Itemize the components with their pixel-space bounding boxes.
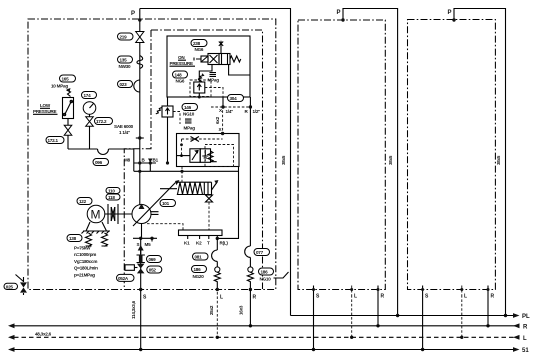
svg-text:025: 025 (6, 284, 14, 289)
motor data text block (74, 246, 98, 278)
svg-text:38x5: 38x5 (388, 155, 393, 165)
svg-text:165: 165 (62, 76, 70, 81)
hose 135 NW30: flexible hose on P riser (118, 56, 143, 70)
svg-text:172.1: 172.1 (48, 138, 59, 143)
svg-text:Q=180L/min: Q=180L/min (74, 266, 98, 271)
enclosure: motor circuit 2 boundary (408, 20, 496, 290)
loop 081 on L drain (193, 250, 218, 261)
svg-text:10 MPag: 10 MPag (51, 84, 68, 89)
pump 101: variable axial piston pump (132, 183, 176, 227)
svg-text:077: 077 (256, 250, 264, 255)
svg-text:138: 138 (69, 236, 77, 241)
svg-text:219: 219 (120, 34, 128, 39)
bus R (8, 323, 528, 330)
svg-text:122: 122 (79, 199, 87, 204)
svg-text:P: P (131, 11, 135, 17)
coupling + hose 186 NG20 on L drain (192, 261, 221, 289)
orifice under actuator (206, 195, 213, 230)
flow arrow up on suction (138, 245, 144, 251)
svg-text:T: T (207, 241, 210, 246)
svg-text:R: R (253, 295, 257, 301)
svg-text:p=21MPag: p=21MPag (74, 272, 95, 277)
wire: L drop to L bus (216, 292, 218, 337)
port plate (179, 230, 229, 246)
node P motor1 (341, 18, 344, 21)
svg-text:S: S (316, 294, 320, 300)
svg-text:NG10: NG10 (183, 112, 195, 117)
node S at boundary (139, 288, 142, 291)
regulator block outline (177, 134, 240, 167)
motor2 ports S L R (421, 286, 494, 300)
node: PL feed junctions (396, 314, 399, 317)
loop 023: expansion loop on P riser (118, 80, 140, 92)
svg-text:ON: ON (178, 55, 185, 60)
node L at boundary (216, 288, 219, 291)
wire: X and R ports under manifold (211, 97, 260, 124)
svg-text:1/4": 1/4" (226, 109, 234, 114)
svg-text:M5: M5 (145, 242, 152, 247)
svg-text:118: 118 (108, 195, 115, 200)
pressure compensator valve in regulator (177, 145, 234, 167)
svg-text:51: 51 (522, 348, 529, 354)
svg-text:069: 069 (149, 257, 157, 262)
svg-text:PL: PL (522, 314, 530, 320)
svg-text:38x5: 38x5 (496, 155, 501, 165)
svg-text:135: 135 (120, 57, 128, 62)
svg-text:R: R (381, 294, 385, 300)
motor1 ports S L R (312, 286, 385, 300)
svg-text:X: X (219, 127, 223, 132)
motor M 122 (77, 198, 105, 223)
bus 51 (8, 347, 529, 354)
wire: suction drop (140, 238, 142, 289)
svg-text:L: L (523, 336, 527, 342)
plugged port above valve (219, 41, 223, 54)
svg-text:052: 052 (149, 267, 157, 272)
svg-text:1 1/4": 1 1/4" (119, 130, 130, 135)
valve 052: suction shutoff (closed symbol) (117, 264, 162, 282)
vent lever at boundary right edge (274, 272, 289, 278)
svg-text:146: 146 (184, 105, 192, 110)
wire: drain from regulator right to R(L) (217, 167, 238, 239)
orifice X in regulator (180, 137, 223, 158)
svg-text:38x5: 38x5 (281, 155, 286, 165)
wire: charge/gauge line y=149 (68, 149, 134, 171)
wire: dashed drops from regulator to port plate (147, 224, 183, 230)
svg-text:101: 101 (162, 201, 170, 206)
svg-text:NG6: NG6 (195, 47, 204, 52)
valve 172.1: gauge shutoff under pressure switch (46, 119, 72, 150)
svg-text:052A: 052A (118, 276, 129, 281)
svg-text:304: 304 (230, 96, 238, 101)
actuator: swashplate positioner with spring (160, 180, 219, 195)
svg-text:MPag: MPag (184, 126, 196, 131)
svg-text:186: 186 (194, 267, 202, 272)
svg-text:148: 148 (175, 72, 183, 77)
svg-text:L: L (464, 294, 467, 300)
svg-text:NG6: NG6 (176, 79, 185, 84)
bus L (dashed) (8, 332, 527, 343)
svg-text:R: R (491, 294, 495, 300)
svg-text:B1: B1 (153, 158, 159, 163)
svg-text:PRESSURE: PRESSURE (170, 61, 193, 66)
coupling 110/118 (105, 188, 132, 225)
wire: pilot dashed from node to actuator (181, 167, 183, 183)
motor mount + springs 138 (67, 222, 110, 246)
svg-text:186: 186 (261, 269, 269, 274)
solenoid valve 238 NG6 ON PRESSURE (170, 40, 241, 67)
wire: R drain from valve block (249, 97, 251, 246)
svg-text:1/2": 1/2" (253, 109, 261, 114)
svg-text:L: L (220, 295, 223, 301)
svg-text:M: M (91, 208, 101, 222)
svg-text:48,3x2,6: 48,3x2,6 (35, 332, 52, 337)
valve 172.2: gauge shutoff under gauge (86, 114, 113, 149)
node R at boundary (249, 288, 252, 291)
svg-text:P: P (337, 10, 341, 16)
svg-text:K2: K2 (196, 241, 202, 246)
coupling + hose 186 NG10 on R drain (247, 257, 273, 289)
wire: S drop to 51 bus (140, 290, 142, 350)
valve 025: boundary drain valve bottom-left (4, 275, 27, 296)
node P on boundary (138, 18, 141, 21)
wire: motor1 drops (313, 295, 315, 350)
svg-text:16x3: 16x3 (239, 305, 244, 315)
svg-text:023: 023 (120, 82, 128, 87)
svg-text:R: R (523, 325, 528, 331)
pressure gauge 174 (82, 92, 97, 115)
svg-text:n=1000rpm: n=1000rpm (74, 252, 96, 257)
svg-text:M8: M8 (124, 158, 131, 163)
wire: motor2 P feed riser (454, 9, 506, 316)
svg-text:K1: K1 (184, 241, 190, 246)
loop 096: expansion loop in gauge line (93, 149, 109, 166)
enclosure: motor circuit 1 boundary (298, 20, 385, 290)
svg-text:S: S (425, 294, 429, 300)
wire: motor1 P feed riser (343, 9, 398, 316)
svg-text:P=75kW: P=75kW (74, 246, 91, 251)
svg-text:110: 110 (108, 189, 115, 194)
port 304 on manifold bottom (228, 95, 244, 102)
svg-text:081: 081 (195, 254, 203, 259)
svg-text:PRESSURE: PRESSURE (33, 109, 56, 114)
svg-text:NG10: NG10 (260, 277, 272, 282)
wire: L drain from R(L) (216, 238, 218, 250)
compensator 069 on suction (137, 255, 162, 263)
drain from valve to manifold edge (229, 65, 250, 76)
relief valve 148 NG6 (173, 65, 224, 99)
svg-text:S: S (143, 295, 147, 301)
svg-text:R(L): R(L) (220, 241, 229, 246)
svg-text:114,3x3,6: 114,3x3,6 (131, 300, 136, 319)
enclosure: pump assembly boundary (dash-dot, stepped left edge) (124, 30, 262, 289)
wire: motor2 drops (422, 295, 424, 350)
node X pilot at regulator top (219, 107, 225, 135)
node P motor2 (452, 18, 455, 21)
svg-text:S: S (137, 242, 140, 247)
svg-text:P: P (448, 10, 452, 16)
bus PL (291, 313, 531, 320)
relief valve 146 NG10: charge relief (156, 97, 198, 165)
wire: P header to PL drop (140, 9, 291, 316)
svg-text:NW30: NW30 (119, 64, 131, 69)
svg-text:LOW: LOW (40, 103, 51, 108)
svg-text:6x2: 6x2 (215, 116, 220, 124)
wire: R drop to R bus (249, 290, 251, 326)
svg-text:B: B (142, 158, 146, 163)
svg-text:MPag: MPag (208, 78, 220, 83)
svg-text:238: 238 (193, 41, 201, 46)
svg-text:172.2: 172.2 (96, 119, 107, 124)
svg-text:Vg=180ccm: Vg=180ccm (74, 259, 97, 264)
svg-text:25x2: 25x2 (209, 305, 214, 315)
valve 219: shutoff on P riser (118, 32, 144, 43)
wire: pump P riser x=140 (139, 9, 141, 206)
manifold outline (167, 36, 250, 97)
flange SAE 6000 1 1/4" on P riser (114, 124, 144, 140)
wire: boost ports line y=163 with M8 B B1 (124, 158, 239, 173)
svg-text:L: L (354, 294, 357, 300)
svg-text:NG20: NG20 (193, 274, 205, 279)
pump suction plate with S M5 (133, 224, 157, 248)
svg-text:096: 096 (95, 160, 103, 165)
svg-text:R: R (245, 109, 249, 114)
enclosure: main power unit boundary (dash-dot box) (28, 19, 276, 290)
pressure switch 165 LOW PRESSURE (33, 75, 76, 119)
svg-text:174: 174 (84, 93, 92, 98)
loop 077 on R drain (245, 246, 270, 257)
svg-text:SAE 6000: SAE 6000 (114, 124, 134, 129)
